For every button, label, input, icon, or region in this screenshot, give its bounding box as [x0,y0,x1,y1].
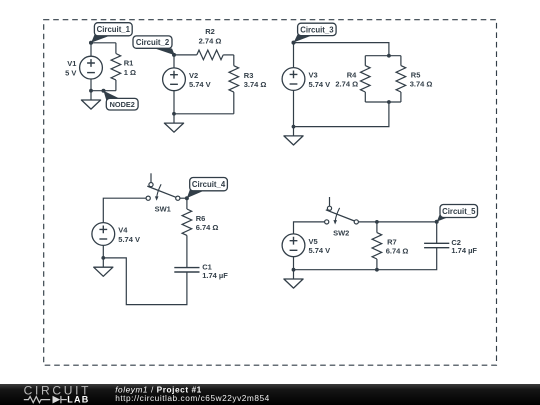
junction node circuit3 top [292,41,296,45]
svg-text:R5: R5 [411,71,421,80]
wire V3 leads [293,43,295,68]
voltage source V4 5.74 V [92,223,140,246]
svg-text:V5: V5 [309,237,318,246]
junction node bottom circuit1 [89,89,93,93]
ground [81,91,100,109]
ground [94,258,113,276]
resistor R2 2.74 Ohm [197,27,223,60]
svg-text:SW1: SW1 [155,205,171,214]
junction node top circuit1 [89,41,93,45]
wire V5 top to switch [294,222,325,234]
svg-text:Circuit_5: Circuit_5 [442,207,476,216]
resistor R5 3.74 Ohm [396,56,432,102]
capacitor C1 1.74 uF [174,263,228,280]
svg-text:R3: R3 [244,71,254,80]
voltage source V1 5 V [65,56,102,79]
wire circuit2 top rail with R2 leads [174,54,197,56]
node label Circuit_1 [89,23,132,45]
svg-text:1.74 µF: 1.74 µF [202,271,228,280]
junction node circuit3 bottom [292,125,296,129]
wire parallel top rail [365,55,401,57]
junction node V4 bottom [101,256,105,260]
svg-text:5.74 V: 5.74 V [309,80,331,89]
svg-text:R2: R2 [205,27,215,36]
svg-text:R4: R4 [347,71,357,80]
node label Circuit_4 [185,178,228,201]
svg-text:R1: R1 [124,58,134,67]
wire C1 bottom loop back to V4 [103,258,187,305]
svg-text:SW2: SW2 [333,228,349,237]
svg-text:1.74 µF: 1.74 µF [451,246,477,255]
wire circuit2 bottom rail [174,113,234,115]
wire V5 bottom lead [293,257,295,270]
CircuitLab logo resistor-diode icon [24,396,67,403]
node label Circuit_3 [292,23,337,44]
wire circuit1 top rail [91,42,116,44]
svg-text:5 V: 5 V [65,69,76,78]
wire V1 bottom lead [90,79,92,91]
junction node circuit2 bottom [172,112,176,116]
wire V4 top to switch [103,198,146,222]
switch SW2 [325,197,359,237]
wire switch to R6 junction [180,197,187,199]
svg-text:http://circuitlab.com/c65w22yv: http://circuitlab.com/c65w22yv2m854 [115,393,270,403]
svg-text:5.74 V: 5.74 V [118,235,140,244]
voltage source V5 5.74 V [282,234,330,257]
ground [284,127,303,145]
svg-text:V4: V4 [118,226,128,235]
svg-text:6.74 Ω: 6.74 Ω [196,223,219,232]
wire circuit1 bottom rail [91,90,116,92]
wire circuit3 top rail [294,43,389,56]
svg-text:R6: R6 [196,214,206,223]
svg-text:Circuit_2: Circuit_2 [136,38,170,47]
svg-text:R7: R7 [387,238,397,247]
resistor R6 6.74 Ohm [182,198,218,267]
wire C2 bottom + circuit5 bottom rail [294,248,437,270]
node label Circuit_5 [435,205,478,224]
wire parallel bottom rail [365,101,401,103]
svg-text:2.74 Ω: 2.74 Ω [199,36,222,45]
switch SW1 [146,173,180,213]
svg-text:5.74 V: 5.74 V [189,80,211,89]
voltage source V2 5.74 V [163,68,211,91]
junction node R7 bottom [375,268,379,272]
svg-text:NODE2: NODE2 [110,100,135,109]
wire V1 top lead [90,43,92,56]
svg-text:3.74 Ω: 3.74 Ω [244,80,267,89]
voltage source V3 5.74 V [282,68,330,91]
svg-text:1 Ω: 1 Ω [124,68,136,77]
junction node R7 top [375,220,379,224]
resistor R7 6.74 Ohm [372,222,408,270]
svg-text:Circuit_1: Circuit_1 [97,25,131,34]
svg-text:6.74 Ω: 6.74 Ω [386,247,409,256]
wire switch to C2 top rail [358,222,436,243]
wire circuit3 bottom rail [294,102,389,127]
svg-text:3.74 Ω: 3.74 Ω [410,80,433,89]
svg-text:LAB: LAB [67,395,89,405]
svg-text:Circuit_4: Circuit_4 [192,180,226,189]
junction node V5 bottom [292,268,296,272]
svg-text:V1: V1 [67,59,76,68]
resistor R3 3.74 Ohm [229,55,266,114]
capacitor C2 1.74 uF [424,238,477,255]
node label NODE2 [102,89,139,110]
svg-text:V2: V2 [189,71,198,80]
ground [284,270,303,288]
junction node parallel top [387,54,391,58]
junction node parallel bottom [387,100,391,104]
svg-text:V3: V3 [309,71,318,80]
svg-text:2.74 Ω: 2.74 Ω [335,80,358,89]
resistor R1 1 Ohm [111,43,136,91]
ground [164,114,183,132]
wire V2 leads [173,55,175,68]
svg-text:Circuit_3: Circuit_3 [300,25,334,34]
node label Circuit_2 [133,36,176,57]
wire V4 bottom lead [102,245,104,258]
svg-text:5.74 V: 5.74 V [309,246,331,255]
resistor R4 2.74 Ohm [335,56,370,102]
schematic dashed border frame [44,20,497,366]
